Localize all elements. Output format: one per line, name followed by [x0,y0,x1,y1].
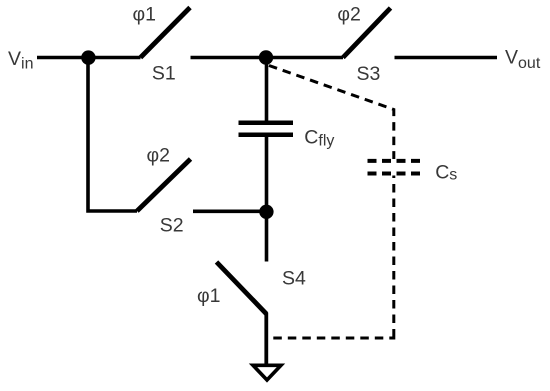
capacitor Cfly bottom plate [239,132,294,137]
label S3 [357,63,381,85]
label S1 [152,63,176,85]
dashed wire Cs bottom lead (vertical) [392,176,395,335]
label phi2 (S2) [147,145,171,167]
wire S3 right lead [395,56,498,60]
dashed wire corner and run to S4 bottom [266,334,394,338]
wire Vin to node A [37,56,88,60]
wire S2 right lead [193,210,266,214]
node A [81,50,95,64]
svg-text:φ1: φ1 [133,3,157,25]
svg-text:S2: S2 [160,215,184,237]
wire S4 top lead [265,212,269,262]
svg-text:φ2: φ2 [337,4,361,26]
switch S1 arm [141,8,191,58]
label phi1 (S4) [197,285,221,307]
capacitor Cs top plate (dashed) [368,159,421,163]
wire S4 bottom lead to ground [264,313,268,365]
switch S4 arm [217,262,267,314]
label S4 [282,268,306,290]
label Vout [505,46,541,72]
label phi2 (S3) [337,4,361,26]
node C [259,205,273,219]
wire Cfly top lead [265,58,269,121]
wire from node A down and to S2 (left lead) [88,58,137,212]
label Cfly [304,126,334,149]
wire S3 left lead [266,56,343,60]
svg-text:φ2: φ2 [147,145,171,167]
capacitor Cs bottom plate (dashed) [368,172,421,176]
wire S1 right lead [191,56,267,60]
ground [253,365,281,380]
switch S3 arm [343,8,391,58]
wire S1 left lead [88,56,141,60]
node B [259,50,273,64]
label S2 [160,215,184,237]
label Vin [8,48,33,73]
svg-text:S4: S4 [282,268,306,290]
svg-text:φ1: φ1 [197,285,221,307]
capacitor Cfly top plate [239,120,294,125]
label Cs [435,161,457,183]
svg-text:S1: S1 [152,63,176,85]
svg-text:S3: S3 [357,63,381,85]
dashed wire from node B diagonally to Cs top [269,66,394,160]
switch S2 arm [137,159,191,211]
label phi1 (S1) [133,3,157,25]
wire Cfly bottom lead [265,137,269,212]
